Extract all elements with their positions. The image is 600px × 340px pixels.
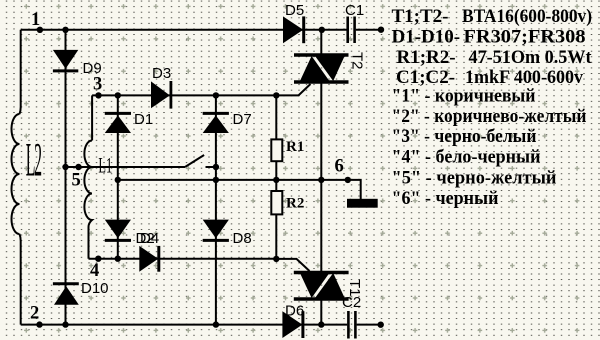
diode D3 (151, 81, 171, 109)
wire bottom right of C2 (357, 324, 381, 326)
node 1 dot (37, 27, 43, 33)
switch contact dot (213, 164, 219, 170)
node 3 dot (95, 92, 101, 98)
wire D1 D2 column (117, 95, 119, 258)
svg-text:R2: R2 (286, 196, 304, 212)
junction dot triac column wireB (318, 177, 324, 183)
junction dot triac bottom (318, 321, 324, 327)
node 2 dot (36, 321, 42, 327)
wire node5 (66, 166, 186, 168)
svg-text:D10: D10 (81, 280, 109, 297)
svg-text:4: 4 (90, 261, 99, 281)
wire L1 bottom lead (88, 227, 90, 259)
diode D2 (105, 220, 131, 241)
svg-text:D7: D7 (233, 111, 252, 128)
junction dot C1 left (319, 27, 325, 33)
svg-text:"5" - черно-желтый: "5" - черно-желтый (392, 168, 557, 189)
junction dot D2 bottom (115, 256, 121, 262)
diode D4 (139, 246, 159, 272)
junction dot node5 left (62, 164, 68, 170)
junction dot D7D8 mid (213, 177, 219, 183)
terminal dot top right (378, 27, 384, 33)
svg-text:C2: C2 (342, 294, 361, 311)
svg-text:T1: T1 (346, 279, 363, 297)
svg-text:R1;R2-: R1;R2- (397, 47, 456, 68)
svg-text:D9: D9 (83, 60, 102, 77)
svg-text:BTA16(600-800v): BTA16(600-800v) (462, 6, 592, 27)
diode D10 (53, 284, 79, 305)
svg-text:T2: T2 (349, 52, 366, 70)
wire triac column top (320, 30, 322, 55)
inductor L2 (12, 114, 20, 234)
svg-text:"2" - коричнево-желтый: "2" - коричнево-желтый (392, 106, 587, 127)
wire node B horizontal to node6 (118, 180, 361, 200)
capacitor C2 (348, 311, 355, 339)
diode D7 (203, 113, 229, 133)
svg-text:"4" - бело-черный: "4" - бело-черный (392, 146, 541, 167)
svg-text:C1: C1 (345, 2, 364, 19)
diode D6 (282, 311, 303, 338)
wire node3 horizontal (92, 94, 276, 96)
wire D9 D10 column (65, 30, 67, 325)
svg-text:D1-D10-: D1-D10- (392, 26, 461, 47)
svg-text:1: 1 (31, 10, 40, 30)
diode D5 (283, 16, 304, 43)
diode D1 (105, 113, 131, 133)
svg-text:6: 6 (335, 157, 344, 177)
node 6 dot (345, 177, 351, 183)
svg-text:"1" - коричневый: "1" - коричневый (392, 86, 536, 107)
wire D7 D8 column (215, 95, 217, 324)
diode D9 (53, 50, 78, 71)
svg-text:R1: R1 (286, 139, 304, 155)
triac T2 (294, 55, 349, 82)
svg-text:FR307;FR308: FR307;FR308 (464, 26, 586, 47)
svg-text:T1;T2-: T1;T2- (392, 6, 449, 27)
node 4 dot (95, 256, 101, 262)
wire R column (275, 95, 277, 259)
terminal node6 bar (347, 199, 378, 208)
wire top node1 (21, 29, 347, 31)
junction dot wire3 R column (273, 92, 279, 98)
svg-text:D1: D1 (134, 111, 153, 128)
inductor L1 (84, 141, 92, 228)
switch contact stub (206, 166, 216, 168)
gate wire T1 (276, 259, 309, 271)
wire top right of C1 (356, 29, 381, 31)
svg-text:D3: D3 (152, 65, 171, 82)
triac T1 (294, 273, 349, 300)
junction dot D1 top (115, 92, 121, 98)
switch blade (185, 155, 204, 167)
svg-text:D8: D8 (233, 230, 252, 247)
svg-text:L2: L2 (26, 133, 41, 187)
wire left vertical with L2 bends (20, 30, 21, 325)
resistor R2 (271, 191, 282, 214)
junction dot D8 bottom (213, 321, 219, 327)
junction dot R2 bottom (273, 256, 279, 262)
terminal dot bottom right (378, 322, 384, 328)
node 5 dot (75, 164, 81, 170)
svg-text:2: 2 (30, 304, 39, 324)
svg-text:"6" - черный: "6" - черный (392, 188, 499, 209)
wire bottom node2 (21, 324, 348, 326)
junction dot D7 top (213, 92, 219, 98)
svg-text:5: 5 (72, 170, 81, 190)
svg-text:D6: D6 (285, 303, 304, 320)
capacitor C1 (348, 17, 355, 44)
wire triac column middle (320, 82, 322, 273)
wire node4 horizontal (89, 258, 277, 260)
svg-text:L1: L1 (98, 153, 112, 178)
svg-text:3: 3 (93, 74, 102, 94)
wire L1 top lead (91, 95, 93, 140)
diode D8 (203, 220, 229, 241)
wire triac column bottom (320, 299, 322, 325)
svg-text:"3" - черно-белый: "3" - черно-белый (392, 126, 537, 147)
junction dot D9 top (62, 27, 68, 33)
resistor R1 (271, 139, 282, 161)
junction dot D1D2 mid (115, 177, 121, 183)
gate wire T2 (276, 84, 310, 95)
svg-text:D5: D5 (285, 2, 304, 19)
junction dot R mid (273, 177, 279, 183)
junction dot D10 bottom (62, 321, 68, 327)
svg-text:D4: D4 (140, 230, 159, 247)
svg-text:47-51Om 0.5Wt: 47-51Om 0.5Wt (469, 47, 593, 68)
